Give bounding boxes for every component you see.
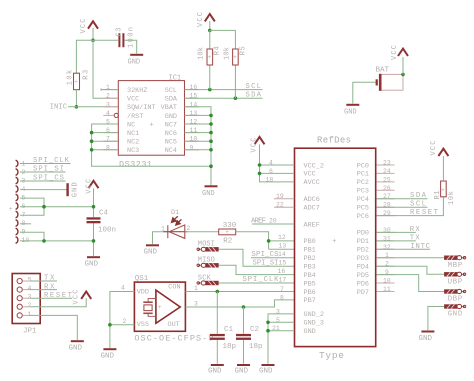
wire SPI_SI <box>20 171 66 173</box>
svg-text:GND: GND <box>144 249 158 257</box>
QS1 pin names <box>137 284 181 330</box>
svg-text:C4: C4 <box>99 210 109 218</box>
svg-text:VCC_2: VCC_2 <box>304 162 324 170</box>
svg-text:BAT: BAT <box>376 67 390 75</box>
svg-text:GND: GND <box>101 353 115 361</box>
MCU right stubs <box>376 165 394 292</box>
svg-text:Type: Type <box>319 350 344 361</box>
wire MCU GND pins <box>268 314 294 364</box>
svg-text:R1: R1 <box>434 191 442 200</box>
svg-text:4: 4 <box>121 284 125 291</box>
wire pin4 to GND <box>20 189 67 191</box>
solder jumper MISO symbol <box>197 263 219 267</box>
capacitor C2 <box>236 307 263 364</box>
svg-text:PD0: PD0 <box>357 230 369 238</box>
wire pin5 <box>20 198 44 215</box>
IC1 right pin numbers <box>190 84 198 151</box>
svg-text:QS1: QS1 <box>135 275 149 283</box>
svg-text:C2: C2 <box>250 326 259 334</box>
svg-text:+: + <box>233 54 237 61</box>
connector pin numbers <box>22 160 30 244</box>
QS1 pin numbers <box>121 284 198 324</box>
svg-text:PB3: PB3 <box>304 264 316 272</box>
svg-text:JP1: JP1 <box>23 328 37 336</box>
svg-text:10k: 10k <box>67 70 75 86</box>
svg-text:SDA: SDA <box>410 192 427 200</box>
svg-text:SDA: SDA <box>165 96 178 104</box>
svg-text:GND: GND <box>448 311 463 319</box>
ground (under JP1) <box>69 340 84 352</box>
resistor R2 <box>219 222 237 245</box>
solder jumper MISO <box>198 257 294 275</box>
wire SPI_CS <box>20 180 66 182</box>
wire SPI_CLK <box>20 163 71 165</box>
wire pins9+10 tie <box>20 232 94 241</box>
ground (under C4) <box>85 256 101 268</box>
node VCC junction R4R5 <box>208 29 212 33</box>
wire GND pad to ground <box>428 307 444 331</box>
svg-text:10k: 10k <box>198 47 206 60</box>
wire BAT to VCC <box>402 57 404 74</box>
svg-text:NC4: NC4 <box>165 147 177 155</box>
wire pin8 stub <box>20 223 31 225</box>
svg-text:PC6: PC6 <box>357 213 369 221</box>
IC1 left pin numbers <box>106 84 110 151</box>
svg-text:SPI_CS: SPI_CS <box>252 251 279 259</box>
svg-text:DBP: DBP <box>448 296 463 304</box>
svg-text:INIC: INIC <box>50 104 68 112</box>
svg-text:10k: 10k <box>448 191 456 205</box>
wire junction to R3 top <box>76 40 93 73</box>
ground (under IC1) <box>202 185 218 198</box>
svg-text:VBAT: VBAT <box>161 104 177 112</box>
power VCC (above C4) <box>85 179 98 194</box>
svg-text:VCC: VCC <box>85 179 93 194</box>
wire net SDA from pin15 <box>185 97 263 99</box>
wire CON to MCU PB6 <box>185 291 294 293</box>
svg-text:PC2: PC2 <box>357 179 369 187</box>
svg-text:R2: R2 <box>223 237 232 245</box>
IC1 left pin names <box>127 87 156 155</box>
MCU right pin names <box>357 162 369 296</box>
power VCC (top-left rail) <box>80 19 98 34</box>
svg-text:PB4: PB4 <box>304 272 316 280</box>
svg-text:PB5: PB5 <box>304 280 316 288</box>
svg-text:C1: C1 <box>224 326 234 334</box>
wire to R4 and R5 <box>210 30 236 98</box>
svg-text:OUT: OUT <box>168 321 180 329</box>
IC U1 (IC1 DS3231) box <box>118 74 184 169</box>
solder pad GND <box>444 304 466 318</box>
svg-text:GND: GND <box>165 113 177 121</box>
svg-text:AREF: AREF <box>304 221 320 229</box>
wire pin1 to MBP pad <box>376 257 444 259</box>
svg-text:GND: GND <box>85 261 99 269</box>
wire OUT to MCU PB7 <box>185 300 294 307</box>
svg-text:GND: GND <box>128 59 141 67</box>
svg-text:SDA: SDA <box>246 92 262 100</box>
svg-text:VDD: VDD <box>137 289 149 297</box>
svg-text:+: + <box>158 304 162 311</box>
svg-text:PC4: PC4 <box>357 196 369 204</box>
ground (under BAT) <box>344 104 359 117</box>
wire net SCL (pin28) <box>376 206 427 208</box>
svg-text:C3: C3 <box>115 28 123 37</box>
resistor R4 <box>198 46 222 65</box>
svg-text:PC0: PC0 <box>357 162 369 170</box>
svg-text:VCC: VCC <box>197 12 205 27</box>
svg-text:VCC: VCC <box>127 96 139 104</box>
svg-text:TX: TX <box>44 275 55 283</box>
svg-text:GND: GND <box>304 328 316 336</box>
svg-text:+: + <box>332 238 336 246</box>
svg-text:32KHZ: 32KHZ <box>127 87 147 95</box>
svg-text:4: 4 <box>28 285 32 292</box>
svg-text:NC: NC <box>127 121 135 129</box>
wire pin9 to DBP pad <box>376 275 444 292</box>
wire R3 bottom to INIC node <box>75 90 77 107</box>
svg-text:PD4: PD4 <box>357 264 369 272</box>
svg-text:RX: RX <box>410 226 421 234</box>
MCU right pin numbers <box>383 160 391 294</box>
svg-text:3: 3 <box>28 294 32 301</box>
svg-text:10k: 10k <box>223 47 231 60</box>
wire net RESET (pin29) <box>376 197 443 216</box>
svg-text:+: + <box>9 206 13 214</box>
microcontroller IC2 (RefDes/Type) box <box>295 136 376 361</box>
wire net SDA (pin27) <box>376 198 427 200</box>
svg-text:GND: GND <box>202 190 215 198</box>
resistor R1 <box>434 181 456 205</box>
wire C3 to GND <box>125 40 137 53</box>
capacitor C1 <box>210 292 236 364</box>
svg-text:ADC6: ADC6 <box>304 196 320 204</box>
svg-text:PB2: PB2 <box>304 255 316 263</box>
svg-text:PD5: PD5 <box>357 272 369 280</box>
svg-text:20: 20 <box>269 217 277 224</box>
svg-text:2: 2 <box>187 225 191 232</box>
IC1 pin4 inversion bubble <box>114 113 118 117</box>
battery BAT <box>376 67 404 91</box>
wire R1 to VCC <box>442 156 444 181</box>
svg-text:SCL: SCL <box>410 201 426 209</box>
wire IC1 left NC collector <box>92 124 211 166</box>
svg-text:SCL: SCL <box>246 83 262 91</box>
svg-text:2: 2 <box>28 302 32 309</box>
MCU left stubs (ADC6/ADC7) <box>274 199 294 208</box>
node BAT plus junction <box>401 73 405 77</box>
MCU left pin names <box>304 162 324 336</box>
JP1 pin numbers <box>28 276 32 317</box>
svg-text:PD6: PD6 <box>357 280 369 288</box>
svg-text:VCC: VCC <box>304 171 316 179</box>
wire pin6 tie to VCC rail <box>20 206 94 208</box>
ground (under C2) <box>235 364 251 376</box>
svg-text:PB7: PB7 <box>304 297 316 305</box>
svg-text:12: 12 <box>278 234 286 241</box>
wire VCC to MCU power pins <box>260 144 295 182</box>
capacitor C3 <box>115 27 135 48</box>
svg-text:5: 5 <box>28 276 32 283</box>
svg-text:GND_3: GND_3 <box>304 320 324 328</box>
connector JP1 <box>12 274 40 336</box>
connector SV1 pin arcs <box>16 160 18 243</box>
svg-text:IC1: IC1 <box>169 74 182 82</box>
solder jumper MOSI symbol <box>197 247 219 251</box>
LED D1 <box>161 209 191 238</box>
svg-text:13: 13 <box>279 243 287 250</box>
svg-text:PB6: PB6 <box>304 289 316 297</box>
IC1 pin stubs right <box>185 90 199 150</box>
wire JP1 pin1 to GND <box>30 315 77 340</box>
wire D1 to R2 <box>185 231 219 233</box>
wire pin2 to UBP pad <box>376 266 444 274</box>
wire IC1 right collector to GND <box>185 107 212 186</box>
IC1 pin stubs left <box>103 90 118 150</box>
wire net TX (pin31) <box>376 240 415 242</box>
svg-text:TX: TX <box>410 235 421 243</box>
IC1 right pin names <box>161 87 178 155</box>
svg-text:MBP: MBP <box>448 262 463 270</box>
buffer triangle inside QS1 <box>156 290 180 323</box>
wire R2 to PB0/PB1 <box>236 232 295 250</box>
svg-text:PC1: PC1 <box>357 171 369 179</box>
svg-text:CON: CON <box>168 284 180 292</box>
svg-text:ADC7: ADC7 <box>304 205 320 213</box>
crystal inside QS1 <box>143 299 156 317</box>
ground (under C3) <box>128 54 144 67</box>
resistor R3 <box>67 70 91 90</box>
svg-text:PD7: PD7 <box>357 289 369 297</box>
ground (under C1) <box>208 364 224 376</box>
svg-text:SPI_SI: SPI_SI <box>33 166 64 174</box>
ground (under MCU) <box>259 364 275 376</box>
svg-text:1: 1 <box>161 226 165 233</box>
solder jumper SCK symbol <box>197 281 219 285</box>
svg-text:R3: R3 <box>82 70 90 80</box>
power VCC (left of MCU) <box>250 137 264 153</box>
ground (rotated, at SPI pin4) <box>66 182 79 197</box>
svg-text:SQW/INT: SQW/INT <box>127 104 156 112</box>
svg-text:OSC-OE-CFPS-9: OSC-OE-CFPS-9 <box>134 333 213 343</box>
node VCC junction <box>91 39 95 43</box>
svg-text:NC3: NC3 <box>127 147 139 155</box>
svg-text:SPI_CLK: SPI_CLK <box>243 276 280 284</box>
wire VDD/VSS to GND <box>110 292 134 349</box>
oscillator QS1 box <box>134 275 213 343</box>
svg-text:16: 16 <box>278 268 286 275</box>
svg-text:GND_2: GND_2 <box>304 311 324 319</box>
solder pad MBP <box>444 256 466 270</box>
svg-text:+: + <box>208 54 212 61</box>
svg-text:PD1: PD1 <box>357 238 369 246</box>
svg-text:RESET: RESET <box>44 292 73 300</box>
wire GND to D1 <box>153 232 169 245</box>
MCU left pin numbers <box>266 160 287 333</box>
solder jumper SCK <box>198 274 294 283</box>
svg-text:GND: GND <box>69 345 83 353</box>
svg-text:GND: GND <box>419 335 433 343</box>
svg-text:VCC: VCC <box>430 141 438 156</box>
svg-text:+: + <box>74 79 78 86</box>
svg-text:17: 17 <box>279 276 287 283</box>
svg-text:VCC: VCC <box>80 19 88 34</box>
wire net RX (pin30) <box>376 231 415 233</box>
svg-text:PC5: PC5 <box>357 205 369 213</box>
svg-text:RESET: RESET <box>410 209 439 217</box>
svg-text:PD2: PD2 <box>357 247 369 255</box>
svg-text:330: 330 <box>223 222 237 230</box>
wire VCC rail down to IC1 pin2 <box>93 40 118 98</box>
svg-text:VSS: VSS <box>137 321 149 329</box>
svg-text:/RST: /RST <box>127 113 143 121</box>
svg-text:SCL: SCL <box>165 87 177 95</box>
svg-text:AREF: AREF <box>251 217 266 225</box>
svg-text:PB0: PB0 <box>304 238 316 246</box>
svg-text:UBP: UBP <box>448 278 463 286</box>
solder jumper MOSI <box>198 241 294 267</box>
ground (left of D1) <box>144 244 160 256</box>
svg-text:NC1: NC1 <box>127 130 139 138</box>
capacitor C4 <box>87 210 117 235</box>
wire JP1 pin2 to VCC <box>30 298 86 307</box>
resistor R5 <box>223 46 247 65</box>
svg-text:+: + <box>149 121 153 129</box>
svg-text:VCC: VCC <box>250 138 258 153</box>
power VCC (above R1) <box>430 141 448 157</box>
svg-text:1: 1 <box>194 285 198 292</box>
wire junction to C3 <box>93 39 118 41</box>
svg-text:R4: R4 <box>213 46 221 55</box>
svg-text:AVCC: AVCC <box>304 179 320 187</box>
wire net SCL from pin16 <box>185 89 263 91</box>
svg-text:18p: 18p <box>249 343 263 351</box>
svg-text:PD3: PD3 <box>357 255 369 263</box>
node INIC <box>75 105 79 109</box>
svg-text:+: + <box>225 229 229 236</box>
solder pad UBP <box>444 272 466 286</box>
svg-text:NC2: NC2 <box>127 139 139 147</box>
power VCC (at JP1) <box>72 290 91 305</box>
wire BAT neg to GND <box>353 82 376 103</box>
wire AREF <box>252 223 294 225</box>
svg-text:GND: GND <box>235 368 249 376</box>
solder pad DBP <box>444 289 466 303</box>
svg-text:PB1: PB1 <box>304 247 316 255</box>
wire IC1 pin1 dangling <box>101 88 118 90</box>
svg-text:NC5: NC5 <box>165 139 177 147</box>
svg-text:NC6: NC6 <box>165 130 177 138</box>
svg-text:SPI_SI: SPI_SI <box>253 259 279 267</box>
JP1 pin stubs <box>23 281 31 315</box>
svg-text:NC7: NC7 <box>165 121 177 129</box>
svg-text:GND: GND <box>344 109 357 117</box>
power VCC (above R4/R5) <box>197 12 215 27</box>
ground (under QS1) <box>101 348 117 360</box>
svg-text:D1: D1 <box>171 209 179 217</box>
svg-text:GND: GND <box>259 368 273 376</box>
svg-text:3: 3 <box>194 300 198 307</box>
svg-text:PC3: PC3 <box>357 188 369 196</box>
wire VCC vertical down to junction <box>92 28 94 40</box>
svg-text:100n: 100n <box>98 227 116 235</box>
svg-text:100n: 100n <box>127 27 135 48</box>
svg-text:SPI_CLK: SPI_CLK <box>33 157 70 165</box>
svg-text:R5: R5 <box>239 46 247 55</box>
wire net INTC (pin32) <box>376 248 430 250</box>
wire net INIC <box>68 106 118 108</box>
svg-text:SPI_CS: SPI_CS <box>33 175 64 183</box>
svg-text:1: 1 <box>28 311 32 318</box>
power VCC (above BAT) <box>391 45 408 60</box>
net label SPI_CS wire <box>251 257 294 259</box>
svg-text:18p: 18p <box>223 343 237 351</box>
svg-text:RefDes: RefDes <box>317 136 351 146</box>
svg-text:14: 14 <box>278 251 286 258</box>
wire VCC rail down through C4 <box>93 188 95 256</box>
svg-text:7: 7 <box>280 286 284 293</box>
svg-text:15: 15 <box>279 259 287 266</box>
svg-text:RX: RX <box>44 283 55 291</box>
ground (below GND pad) <box>419 331 435 344</box>
svg-text:GND: GND <box>72 182 80 197</box>
svg-text:VCC: VCC <box>391 45 399 60</box>
svg-text:8: 8 <box>280 294 284 301</box>
svg-text:VCC: VCC <box>72 290 80 305</box>
svg-text:INTC: INTC <box>411 243 431 251</box>
svg-text:GND: GND <box>208 368 222 376</box>
svg-text:2: 2 <box>123 318 127 325</box>
svg-text:DS3231: DS3231 <box>119 160 152 170</box>
svg-text:10: 10 <box>22 237 30 244</box>
